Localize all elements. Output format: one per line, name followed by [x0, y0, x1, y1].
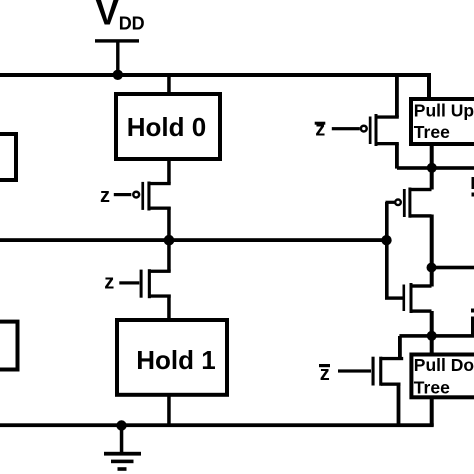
svg-text:V: V — [96, 0, 120, 33]
svg-text:z: z — [315, 119, 325, 141]
svg-text:DD: DD — [119, 14, 145, 34]
svg-text:Tree: Tree — [414, 122, 450, 142]
svg-text:Hold 0: Hold 0 — [127, 112, 206, 142]
svg-text:Pull Up: Pull Up — [414, 100, 474, 120]
svg-text:z: z — [104, 271, 114, 293]
svg-text:Hold 1: Hold 1 — [136, 345, 215, 375]
svg-text:Tree: Tree — [414, 378, 450, 398]
svg-text:Pull Down: Pull Down — [414, 355, 474, 375]
svg-text:z: z — [320, 363, 330, 385]
svg-text:z: z — [100, 185, 110, 207]
